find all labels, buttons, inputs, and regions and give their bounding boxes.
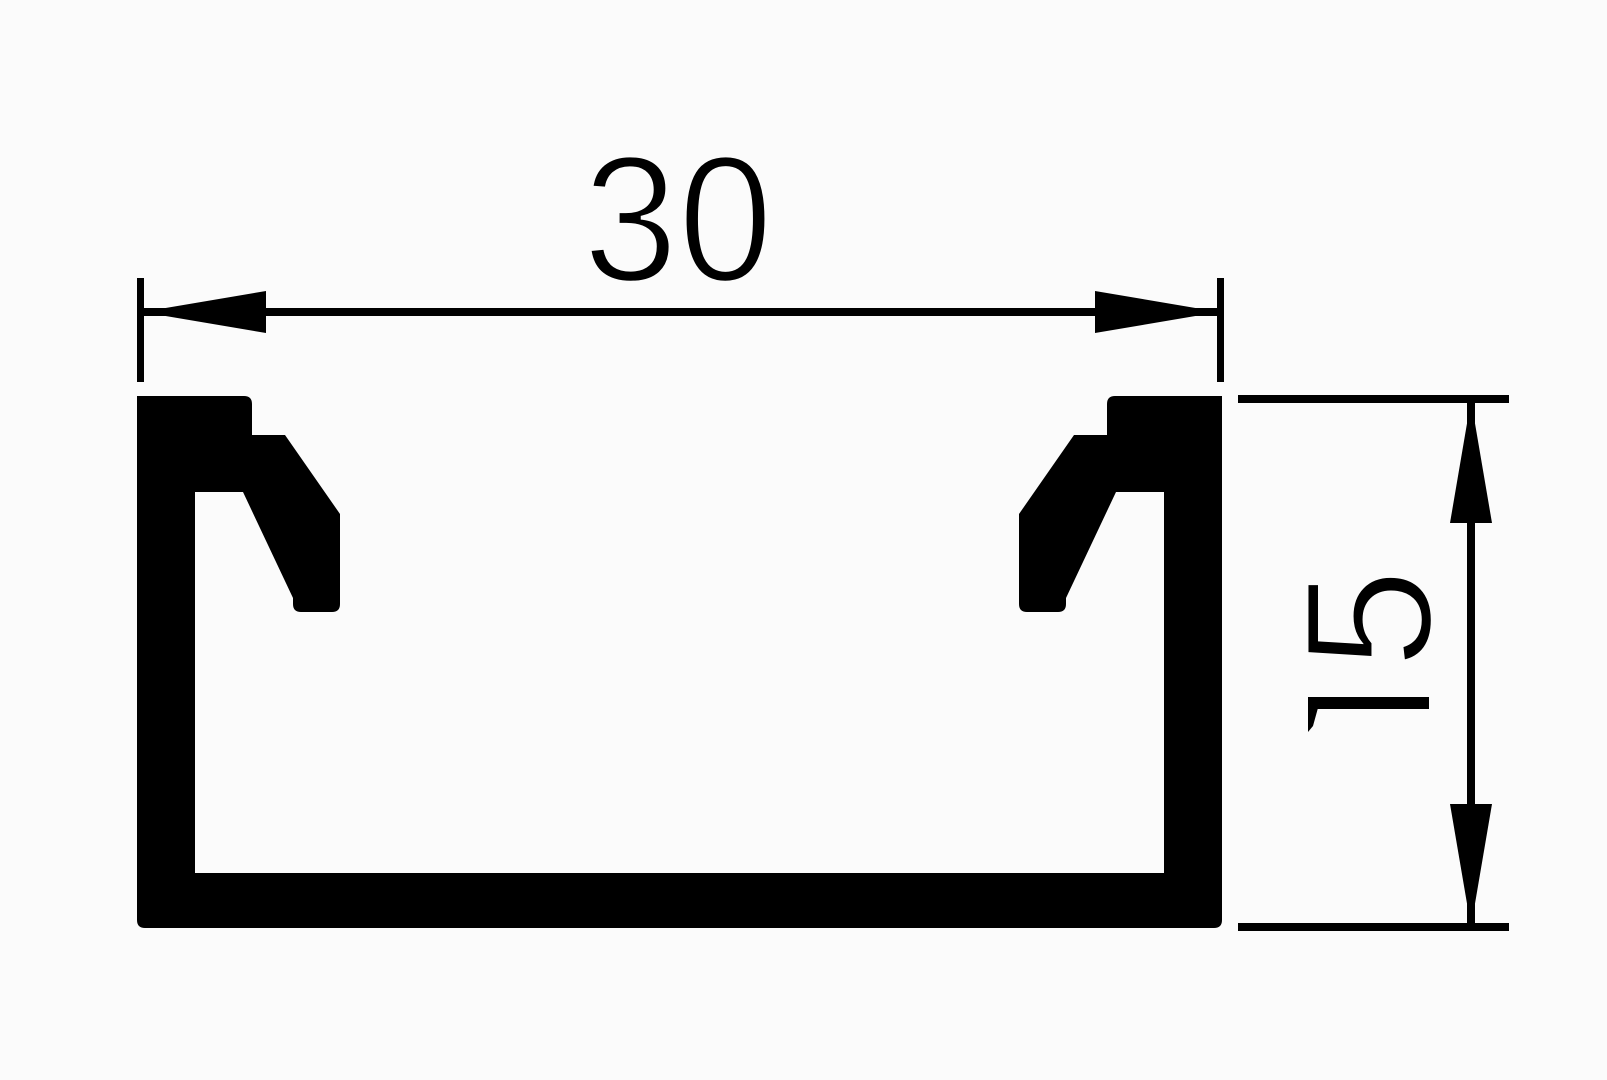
svg-text:5: 5 [1268,568,1470,669]
svg-text:30: 30 [583,119,773,320]
